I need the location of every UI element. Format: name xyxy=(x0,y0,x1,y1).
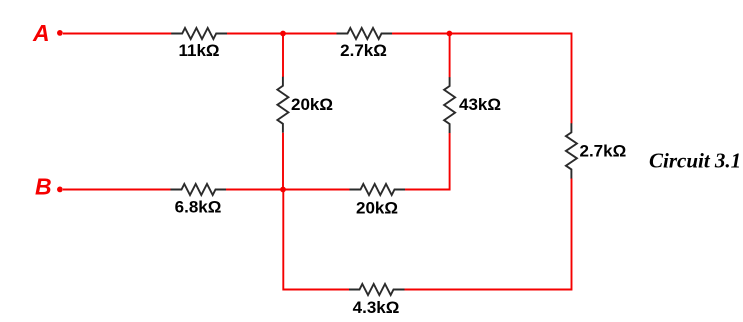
resistor 20kOhm horizontal xyxy=(350,184,406,195)
wire junction J1 down to R 20k vertical xyxy=(282,34,284,78)
svg-text:43kΩ: 43kΩ xyxy=(459,95,501,114)
resistor 11kOhm xyxy=(171,28,227,39)
junction J2 dot xyxy=(447,31,453,37)
resistor 2.7kOhm top xyxy=(337,28,393,39)
wire R 11k to junction J1 to R 2.7k top xyxy=(227,33,337,35)
wire A to R 11k xyxy=(63,33,172,35)
svg-text:B: B xyxy=(35,174,52,200)
wire R 4.3k left and up to junction J3 xyxy=(283,190,349,290)
svg-text:A: A xyxy=(32,20,50,46)
wire right side down and bottom to R 4.3k xyxy=(404,179,572,290)
svg-text:11kΩ: 11kΩ xyxy=(178,41,219,60)
wire R 20k horizontal up to R 43k xyxy=(405,133,450,190)
wire R 2.7k top to junction J2 to top-right corner xyxy=(392,34,572,124)
resistor 4.3kOhm bottom xyxy=(349,284,405,295)
wire B to R 6.8k xyxy=(63,189,171,191)
wire R 20k vertical down to junction J3 xyxy=(282,133,284,190)
svg-text:20kΩ: 20kΩ xyxy=(291,95,333,114)
wire R 43k top to junction J2 xyxy=(449,34,451,78)
resistor 20kOhm vertical xyxy=(277,77,288,133)
node B terminal dot xyxy=(57,187,63,193)
svg-text:2.7kΩ: 2.7kΩ xyxy=(340,41,387,60)
resistor 6.8kOhm xyxy=(171,184,227,195)
svg-text:4.3kΩ: 4.3kΩ xyxy=(353,298,400,317)
resistor 43kOhm vertical xyxy=(444,77,455,133)
junction J1 dot xyxy=(280,31,286,37)
svg-text:Circuit 3.1: Circuit 3.1 xyxy=(649,149,741,173)
svg-text:2.7kΩ: 2.7kΩ xyxy=(580,142,627,161)
resistor 2.7kOhm right vertical xyxy=(566,123,577,179)
svg-text:20kΩ: 20kΩ xyxy=(356,199,398,218)
node A terminal dot xyxy=(57,30,63,36)
junction J3 dot xyxy=(280,187,286,193)
svg-text:6.8kΩ: 6.8kΩ xyxy=(175,198,222,217)
wire R 6.8k to junction J3 to R 20k horizontal xyxy=(226,189,350,191)
